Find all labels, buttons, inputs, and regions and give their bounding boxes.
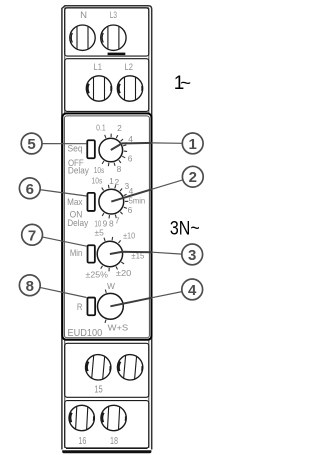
dial scale label 6: [128, 153, 133, 163]
device bottom edge bar: [62, 450, 151, 453]
dial scale label ±20: [116, 268, 132, 278]
svg-text:3N~: 3N~: [170, 219, 200, 240]
svg-text:Max: Max: [67, 197, 83, 208]
svg-text:6: 6: [26, 181, 34, 198]
label 3N~ (three phase): [170, 219, 200, 240]
sealing tab on divider: [108, 53, 126, 56]
dial scale label 5min: [129, 196, 146, 206]
callout 6: [19, 178, 40, 199]
leader line from callout 6 to Max switch: [40, 190, 87, 196]
label L1: [94, 62, 102, 73]
callout 5: [21, 133, 42, 154]
label R: [77, 302, 83, 313]
dial 1 pointer: [111, 143, 152, 150]
terminal block 16/18: [65, 401, 149, 449]
leader line to callout 2: [152, 180, 183, 190]
terminal screw 15b: [116, 354, 144, 382]
svg-text:2: 2: [117, 123, 122, 133]
label L2: [125, 62, 133, 73]
svg-text:6: 6: [128, 205, 133, 215]
device housing outer contour: [62, 6, 152, 450]
label Min: [70, 248, 82, 259]
dial scale label ±15: [131, 250, 144, 260]
dial scale label 7: [115, 215, 120, 225]
dial 3 pointer: [110, 252, 152, 254]
leader line from callout 8 to R switch: [39, 287, 86, 297]
leader line to callout 1: [152, 142, 183, 144]
svg-text:10s: 10s: [92, 176, 103, 186]
front panel inner edge: [64, 116, 149, 338]
label OFF: [68, 158, 84, 169]
label 15: [94, 385, 103, 396]
terminal screw 16: [68, 405, 95, 432]
svg-text:10s: 10s: [94, 165, 105, 175]
callout 4: [182, 279, 203, 300]
svg-text:EUD100: EUD100: [68, 328, 103, 339]
callout 8: [19, 275, 40, 296]
svg-text:7: 7: [115, 215, 120, 225]
label 1~ (single phase): [174, 72, 191, 94]
dial scale label 6: [128, 205, 133, 215]
dial scale label 2: [117, 123, 122, 133]
dial scale label 2: [114, 177, 119, 187]
dial 4 pointer: [110, 298, 152, 307]
dial 2 pointer: [111, 189, 152, 201]
dial scale label ±5: [95, 228, 105, 238]
callout 7: [22, 224, 43, 245]
label 16: [78, 436, 86, 447]
svg-text:8: 8: [109, 219, 114, 229]
svg-text:±25%: ±25%: [86, 269, 109, 279]
front panel outer border: [62, 113, 151, 339]
dial 2 ON-delay time: [99, 185, 128, 219]
svg-text:~: ~: [180, 72, 191, 93]
svg-text:Delay: Delay: [67, 218, 88, 229]
terminal screw L1: [86, 76, 111, 101]
svg-text:Min: Min: [70, 248, 82, 259]
terminal screw L2: [117, 76, 142, 101]
dial scale label W+S: [108, 322, 129, 332]
svg-text:5: 5: [27, 136, 35, 153]
label Max: [67, 197, 83, 208]
terminal screw L3: [101, 25, 126, 50]
label N: [80, 10, 87, 21]
label Seq: [67, 144, 82, 155]
terminal block 16/18 bottom edge emphasis: [66, 447, 148, 449]
label Delay1: [68, 166, 89, 177]
svg-text:2: 2: [114, 177, 119, 187]
svg-text:0.1: 0.1: [96, 123, 106, 133]
svg-text:1: 1: [189, 136, 197, 153]
svg-text:3: 3: [188, 247, 196, 264]
svg-text:±20: ±20: [116, 268, 132, 278]
svg-text:L2: L2: [125, 62, 133, 73]
slide switch Seq switch: [87, 140, 95, 158]
svg-text:7: 7: [28, 227, 36, 244]
callout 2: [182, 166, 203, 187]
dial 3 switching threshold: [97, 237, 124, 271]
terminal screw 18: [100, 405, 127, 432]
svg-text:W+S: W+S: [108, 322, 129, 332]
leader line to callout 3: [152, 252, 182, 254]
dial scale label 10s: [92, 176, 103, 186]
callout 3: [182, 244, 203, 265]
dial scale label 4: [128, 134, 133, 144]
dial scale label 9: [103, 219, 108, 229]
svg-text:Delay: Delay: [68, 166, 89, 177]
dial 4 mode W / W+S: [98, 290, 124, 323]
label 18: [110, 436, 118, 447]
device housing inner edge lines: [65, 8, 149, 448]
svg-text:18: 18: [110, 436, 118, 447]
leader line from callout 7 to Min switch: [42, 237, 87, 246]
dial scale label 8: [109, 219, 114, 229]
svg-text:R: R: [77, 302, 83, 313]
slide switch Min switch: [88, 245, 95, 262]
leader line to callout 4: [152, 292, 183, 298]
dial scale label ±25%: [86, 269, 109, 279]
svg-text:6: 6: [128, 153, 133, 163]
svg-text:8: 8: [26, 278, 34, 295]
dial scale label 8: [117, 164, 122, 174]
dial scale label 3: [124, 181, 129, 191]
dial scale label 0.1: [96, 123, 106, 133]
label L3: [110, 10, 117, 21]
svg-text:8: 8: [117, 164, 122, 174]
dial scale label ±10: [123, 231, 135, 241]
leader line from callout 5 to Seq switch: [42, 143, 87, 145]
callout 1: [182, 133, 203, 154]
svg-text:2: 2: [189, 169, 197, 186]
slide switch R switch: [87, 298, 95, 316]
svg-text:15: 15: [94, 385, 103, 396]
dial scale label 1: [109, 176, 114, 186]
svg-text:Seq: Seq: [67, 144, 82, 155]
dial scale label W: [107, 281, 115, 291]
dial scale label 10s: [94, 165, 105, 175]
slide switch Max switch: [87, 193, 94, 211]
terminal block 15: [65, 343, 149, 397]
label Delay2: [67, 218, 88, 229]
terminal screw 15a: [84, 354, 112, 382]
dial 1 OFF-delay time: [99, 134, 127, 167]
svg-text:16: 16: [78, 436, 86, 447]
svg-text:±5: ±5: [95, 228, 105, 238]
dial scale label 10: [95, 219, 102, 229]
svg-text:±10: ±10: [123, 231, 135, 241]
svg-text:L3: L3: [110, 10, 117, 21]
svg-text:4: 4: [188, 282, 197, 299]
svg-text:1: 1: [109, 176, 114, 186]
svg-text:5min: 5min: [129, 196, 146, 206]
dial scale label 4: [129, 186, 134, 196]
svg-text:N: N: [80, 10, 87, 21]
terminal screw N: [70, 25, 95, 50]
svg-text:W: W: [107, 281, 115, 291]
svg-text:L1: L1: [94, 62, 102, 73]
terminal block N/L3: [65, 8, 149, 56]
label ON: [70, 210, 83, 221]
terminal block L1/L2: [65, 59, 149, 112]
label EUD100: [68, 328, 103, 339]
